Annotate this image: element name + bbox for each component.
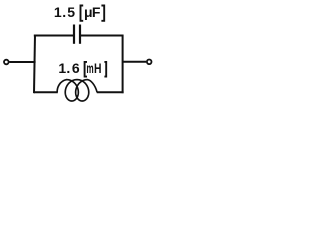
wire capacitor to top right xyxy=(80,35,124,37)
wire node B to right terminal xyxy=(123,61,147,63)
wire inductor to bottom right xyxy=(97,91,124,93)
wire left terminal to node A xyxy=(9,61,35,63)
inductor L1 coil (2 loops) xyxy=(57,80,97,101)
wire left vertical xyxy=(34,35,35,94)
capacitor C1 value label "1.5 [uF]" xyxy=(54,4,104,21)
wire bottom left to inductor xyxy=(34,91,58,93)
svg-text:1: 1 xyxy=(58,60,66,76)
wire right vertical xyxy=(122,35,124,94)
svg-text:.: . xyxy=(66,60,70,76)
inductor L1 value label "1.6[mH]" xyxy=(58,60,106,76)
capacitor C1 left plate xyxy=(73,25,75,44)
svg-text:1: 1 xyxy=(54,4,62,20)
svg-text:.: . xyxy=(62,4,66,20)
svg-text:F: F xyxy=(92,4,101,20)
capacitor C1 right plate xyxy=(79,25,81,44)
svg-text:H: H xyxy=(94,60,102,76)
left terminal xyxy=(4,60,9,65)
wire top left to capacitor xyxy=(34,35,74,37)
right terminal xyxy=(147,60,152,65)
svg-text:m: m xyxy=(86,60,93,76)
svg-text:6: 6 xyxy=(72,60,80,76)
svg-text:5: 5 xyxy=(67,4,75,20)
